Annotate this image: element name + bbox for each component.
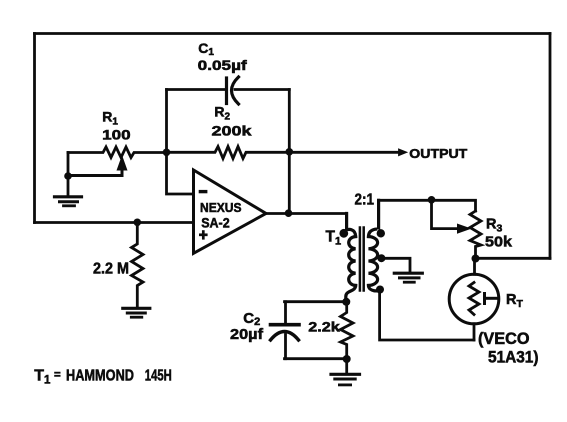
thermistor RT tick mark: [483, 294, 486, 304]
svg-text:2.2 M: 2.2 M: [93, 260, 129, 277]
node input junction dot: [163, 149, 171, 157]
op-amp U1 NEXUS SA-2: [194, 170, 267, 253]
wire R1 left end down: [67, 153, 70, 177]
wire R3 node to right border: [476, 257, 551, 260]
svg-text:R2: R2: [214, 104, 230, 123]
R1 wiper arrow: [69, 166, 122, 176]
node R3/RT junction dot: [472, 255, 480, 263]
svg-text:20µf: 20µf: [230, 327, 263, 343]
wire secondary top to R3: [379, 200, 476, 211]
ground (2.2k/C2): [345, 359, 348, 373]
svg-text:2.2k: 2.2k: [308, 318, 340, 334]
svg-text:SA-2: SA-2: [201, 216, 230, 231]
transformer T1 primary phase dot: [339, 229, 348, 238]
op-amp plus sign: [199, 233, 208, 236]
svg-text:2:1: 2:1: [355, 191, 375, 208]
thermistor RT circle: [449, 274, 499, 324]
svg-text:100: 100: [102, 127, 131, 143]
wire C1/R2 right rail: [288, 90, 291, 153]
wire center tap to ground: [381, 258, 410, 272]
wire input node up to C1 rail: [165, 90, 168, 153]
capacitor C2: [284, 302, 287, 323]
node primary bottom junction dot: [342, 298, 350, 306]
node output-feedback junction dot: [286, 148, 294, 156]
svg-text:(VECO: (VECO: [478, 330, 530, 348]
transformer T1 center tap dot: [377, 254, 385, 262]
svg-text:0.05µf: 0.05µf: [198, 58, 248, 73]
ground (2.2M): [123, 307, 150, 310]
wire op-amp output: [266, 212, 347, 215]
thermistor RT internal resistor: [469, 283, 479, 315]
wire primary bottom to C2 rail: [285, 300, 347, 303]
wire non-inverting input row: [35, 221, 194, 224]
node R3 wiper tap dot: [428, 196, 436, 204]
resistor R1: [68, 147, 167, 158]
node secondary bottom dot: [376, 286, 384, 294]
ground (R1 wiper): [67, 176, 70, 196]
svg-text:RT: RT: [506, 292, 523, 310]
wire feedback rail down to op-amp output: [288, 152, 291, 213]
wire secondary bottom down and right: [380, 290, 474, 341]
svg-text:T1: T1: [34, 367, 51, 386]
wire right border: [549, 34, 552, 259]
svg-text:200k: 200k: [212, 123, 252, 139]
transformer T1 secondary winding: [369, 200, 379, 236]
junction dot R1 wiper/ground: [64, 172, 72, 180]
resistor 2.2k: [341, 302, 354, 359]
svg-text:R3: R3: [486, 217, 502, 235]
transformer T1 primary winding: [347, 214, 356, 237]
wire C2 bottom rail: [285, 357, 347, 360]
wire RT bottom: [473, 324, 476, 340]
capacitor C1: [167, 88, 227, 91]
svg-text:T1: T1: [326, 229, 342, 248]
svg-text:145H: 145H: [145, 367, 172, 384]
ground (center tap): [394, 272, 422, 275]
resistor 2.2M: [132, 223, 144, 308]
node 2.2k bottom junction dot: [343, 355, 351, 363]
svg-text:R1: R1: [102, 109, 118, 128]
svg-text:HAMMOND: HAMMOND: [66, 367, 134, 384]
wire output: [289, 151, 397, 154]
wire junction to thermistor: [473, 259, 476, 275]
svg-text:NEXUS: NEXUS: [200, 200, 242, 215]
svg-text:C1: C1: [198, 40, 214, 58]
wire top border: [35, 32, 551, 35]
potentiometer R3: [470, 211, 481, 258]
R3 wiper arrow: [432, 200, 459, 229]
resistor R2: [167, 147, 290, 159]
svg-text:OUTPUT: OUTPUT: [409, 146, 467, 161]
transformer T1 secondary phase dot: [377, 229, 385, 237]
node op-amp output junction dot: [285, 209, 293, 217]
transformer T1 core: [359, 228, 362, 291]
svg-text:50k: 50k: [485, 233, 513, 250]
svg-text:=: =: [54, 370, 61, 382]
op-amp minus sign: [199, 190, 208, 193]
output arrowhead: [399, 149, 407, 155]
node 2.2M junction dot: [134, 219, 142, 227]
svg-text:51A31): 51A31): [488, 348, 539, 366]
svg-text:C2: C2: [243, 310, 260, 328]
wire left border: [33, 34, 36, 223]
wire input node to inverting input: [167, 152, 194, 194]
